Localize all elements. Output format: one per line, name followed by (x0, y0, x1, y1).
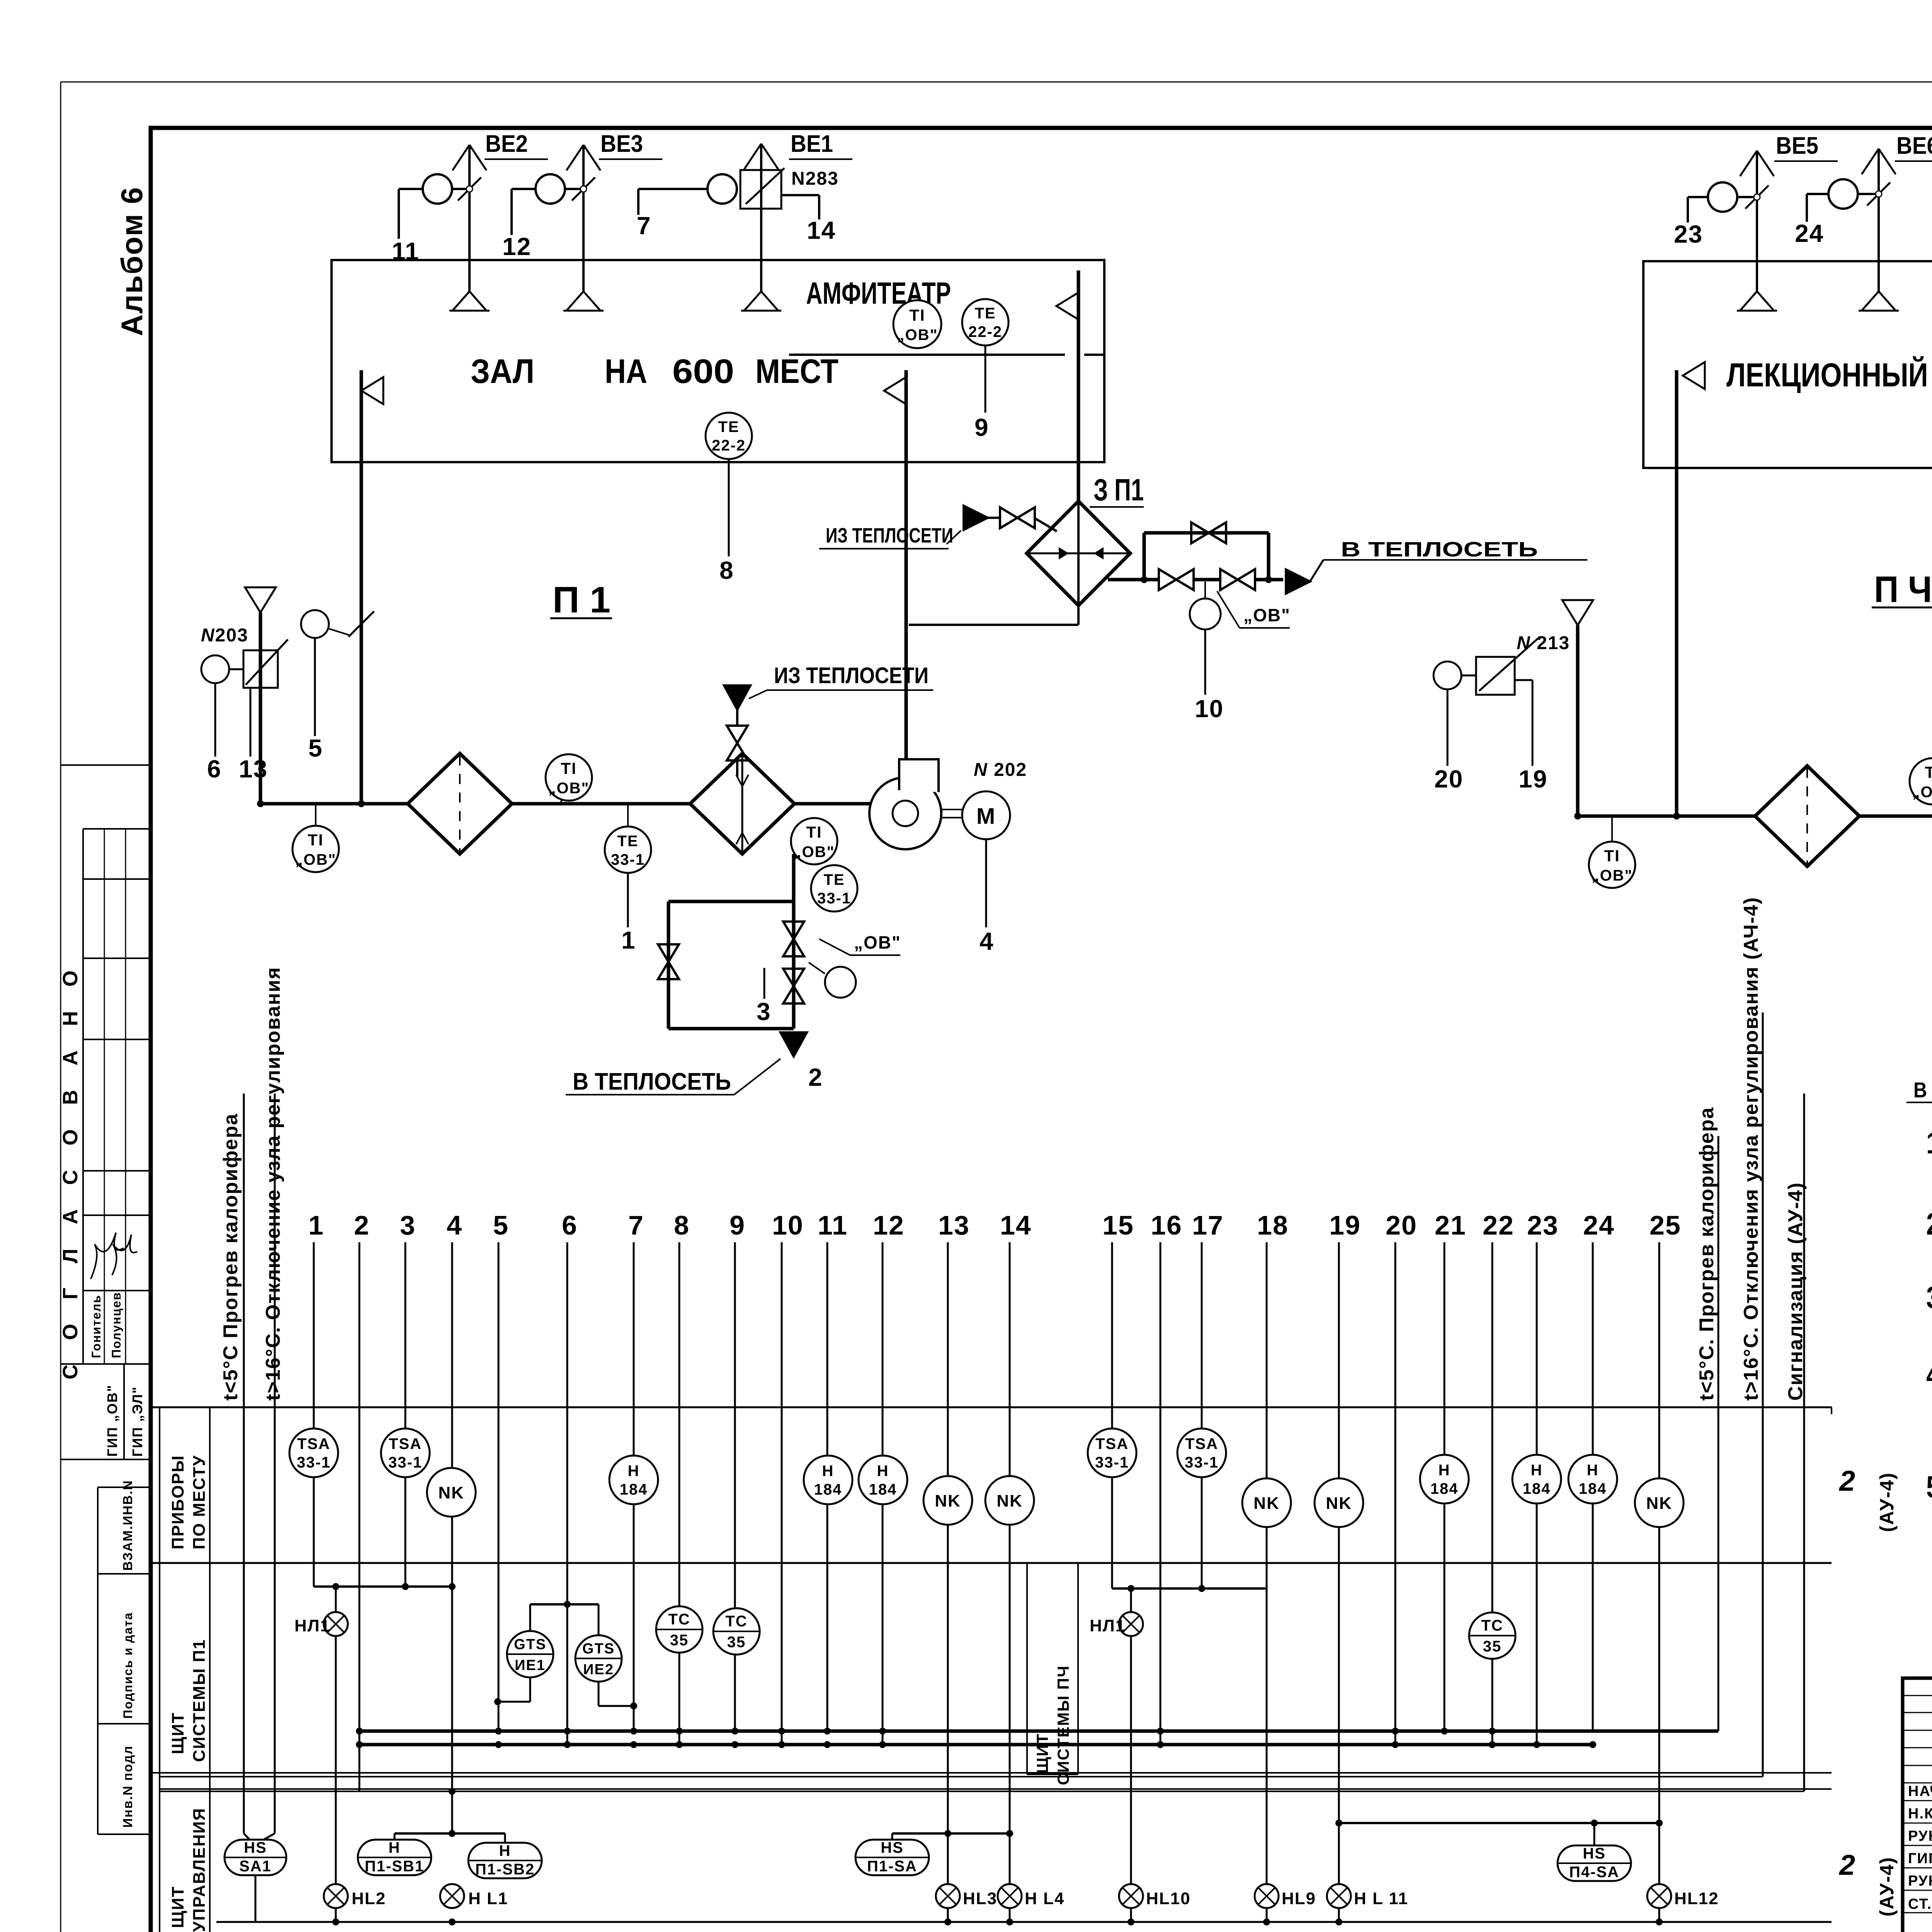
svg-text:H L 11: H L 11 (1354, 1889, 1408, 1908)
heat supply inlet P1 (724, 685, 750, 709)
svg-text:ТЕ: ТЕ (617, 833, 638, 850)
svg-text:УПРАВЛЕНИЯ: УПРАВЛЕНИЯ (190, 1808, 209, 1932)
wire 10 (772, 1210, 804, 1745)
svg-text:4: 4 (447, 1210, 463, 1240)
label t less 5C progrev kalorifera P1 (219, 1113, 242, 1401)
wire 14 (807, 216, 836, 244)
svg-text:2: 2 (1838, 1849, 1856, 1881)
svg-text:П 1: П 1 (553, 579, 611, 621)
wire 5 (493, 1210, 509, 1731)
svg-text:ТЕ: ТЕ (718, 418, 739, 435)
svg-text:13: 13 (239, 755, 268, 783)
svg-text:16: 16 (1151, 1210, 1182, 1240)
heater bypass loop P1 (658, 854, 804, 1029)
svg-text:ВЗАМ.ИНВ.N: ВЗАМ.ИНВ.N (121, 1480, 135, 1571)
svg-text:Н: Н (1587, 1462, 1599, 1479)
device H 184 line11 (804, 1456, 852, 1504)
svg-text:1: 1 (308, 1210, 324, 1240)
wire 25 (1650, 1210, 1681, 1922)
label pribory po mestu (168, 1455, 209, 1549)
svg-text:НА: НА (605, 352, 647, 390)
svg-text:22-2: 22-2 (968, 323, 1002, 340)
label v teploset P1 (566, 1059, 781, 1095)
svg-text:10: 10 (1195, 695, 1224, 723)
svg-text:ЩИТ: ЩИТ (1033, 1733, 1051, 1774)
svg-text:19: 19 (1329, 1210, 1361, 1240)
wire 3 (400, 1210, 416, 1587)
connector HS P4-SA (1335, 1820, 1663, 1846)
wire 18 (1257, 1210, 1289, 1922)
svg-text:TSA: TSA (1185, 1435, 1218, 1452)
svg-text:9: 9 (730, 1210, 745, 1240)
svg-text:2.: 2. (1926, 1207, 1932, 1241)
control bus upper (160, 1776, 1763, 1777)
title block signature names (1908, 1782, 1932, 1912)
switch TSA 33-1 line1 (289, 1429, 338, 1477)
wire 20 (1434, 689, 1463, 793)
band divider instruments top (151, 1406, 1832, 1408)
junction run line15-line18 (1112, 1585, 1267, 1592)
svg-text:HL2: HL2 (352, 1889, 386, 1908)
svg-text:Н: Н (1531, 1462, 1543, 1479)
wire 11 (392, 237, 420, 265)
title block frame (1903, 1678, 1932, 1932)
wire 17 (1192, 1210, 1224, 1588)
svg-text:ВЕ5: ВЕ5 (1776, 133, 1818, 159)
label OV valve P1 (819, 932, 901, 955)
svg-text:СИСТЕМЫ ПЧ: СИСТЕМЫ ПЧ (1054, 1665, 1072, 1785)
lamp HL1 panel P4 (1090, 1588, 1143, 1922)
control valve actuator P1 (809, 963, 856, 998)
svg-text:TI: TI (1925, 763, 1932, 781)
svg-text:„ОВ": „ОВ" (854, 932, 901, 952)
heat outlet arrow Z P1 (1286, 560, 1323, 594)
svg-text:2: 2 (808, 1063, 823, 1091)
return grille P4 left (1677, 362, 1705, 816)
svg-text:25: 25 (1650, 1210, 1681, 1240)
label v teploset Z P1 (1323, 538, 1587, 561)
svg-text:12: 12 (873, 1210, 905, 1240)
lamp HL1 panel P1 (294, 1587, 348, 1922)
svg-text:ПРИБОРЫ: ПРИБОРЫ (168, 1455, 187, 1549)
filter P4 (1755, 766, 1859, 866)
svg-text:Н: Н (628, 1463, 640, 1480)
wire 7 (628, 1210, 644, 1731)
svg-text:ВЕ6: ВЕ6 (1896, 133, 1932, 159)
wire 24 (1795, 219, 1824, 247)
wire signalizaciya (1803, 1094, 1805, 1791)
sensor TE 33-1 heater return P1 (811, 865, 857, 912)
svg-text:П1-SB1: П1-SB1 (365, 1858, 424, 1875)
room P1 hall 600 seats (332, 260, 1104, 462)
svg-text:24: 24 (1583, 1210, 1615, 1240)
label signalizaciya (1784, 1182, 1807, 1401)
room P4 lecture hall 200 seats (1643, 261, 1932, 468)
svg-text:Полунцев: Полунцев (109, 1292, 123, 1358)
svg-text:В ТЕПЛОСЕТЬ: В ТЕПЛОСЕТЬ (1341, 538, 1538, 561)
svg-text:ЩИТ: ЩИТ (168, 1712, 187, 1754)
wire 1 (621, 873, 636, 954)
wire 7 (637, 212, 651, 240)
svg-text:HL3: HL3 (963, 1889, 997, 1908)
damper N213 (1434, 633, 1570, 695)
sensor TE 33-1 P1 (605, 804, 651, 873)
svg-text:ВЕ2: ВЕ2 (485, 131, 528, 157)
svg-text:ВЕ3: ВЕ3 (600, 131, 643, 157)
wire 8 (674, 1210, 690, 1745)
filter P1 (408, 753, 512, 854)
svg-text:t>16°C. Отключение узла регули: t>16°C. Отключение узла регулирования (262, 967, 284, 1401)
GIP OV / GIP EL boxes (61, 1364, 151, 1459)
svg-text:12: 12 (502, 233, 531, 260)
svg-text:14: 14 (807, 216, 836, 244)
wire 12 (873, 1210, 905, 1745)
label iz teploseti P1 (749, 663, 933, 699)
svg-text:НАЧ.ОТД.: НАЧ.ОТД. (1908, 1783, 1932, 1799)
svg-text:П1-SA: П1-SA (867, 1858, 917, 1875)
wire t less 5C P4 (1718, 1136, 1719, 1731)
sensor TE 22-2 amphitheatre (962, 299, 1009, 413)
svg-text:33-1: 33-1 (817, 890, 851, 907)
svg-text:TI: TI (308, 831, 323, 849)
svg-text:(АУ-4): (АУ-4) (1876, 1472, 1898, 1532)
lamp HL4 (998, 1884, 1065, 1908)
bracket 2 AU-4 upper (1832, 1407, 1898, 1532)
control bus lower (160, 1791, 1804, 1792)
svg-text:14: 14 (1000, 1210, 1032, 1240)
button H P1-SB1 (358, 1839, 431, 1875)
automation signal wires 1-25 with numbers (308, 1210, 1681, 1922)
label Albom 6 (115, 187, 149, 336)
svg-text:Н: Н (499, 1842, 511, 1859)
svg-text:NK: NK (935, 1492, 961, 1510)
control valve actuator Z P1 (1190, 582, 1221, 629)
wire 3 (757, 968, 771, 1026)
device NK line4 (427, 1468, 476, 1517)
svg-text:184: 184 (1523, 1480, 1551, 1497)
wire 24 (1583, 1210, 1615, 1731)
svg-text:ЗАЛ: ЗАЛ (471, 352, 534, 390)
label LEKCIONNYJ ZAL NA 200 MEST (1726, 356, 1932, 394)
exhaust fan BE2 (399, 131, 548, 311)
svg-text:8: 8 (674, 1210, 690, 1240)
wire 4 (980, 839, 994, 955)
svg-text:Н: Н (389, 1839, 401, 1856)
svg-text:В ТЕПЛОСЕТЬ: В ТЕПЛОСЕТЬ (573, 1068, 731, 1095)
notes text (1926, 1126, 1932, 1541)
svg-text:3.: 3. (1926, 1280, 1932, 1315)
device NK line13 (923, 1476, 972, 1525)
svg-text:HL12: HL12 (1674, 1889, 1719, 1908)
svg-text:ИЗ ТЕПЛОСЕТИ: ИЗ ТЕПЛОСЕТИ (826, 524, 953, 547)
sensor TE 22-2 room P1 (706, 413, 752, 556)
switch HS P1-SA (855, 1839, 929, 1875)
label Soglasovano (59, 961, 82, 1379)
svg-text:РУК.СЕК.: РУК.СЕК. (1908, 1828, 1932, 1844)
svg-text:ИЗ ТЕПЛОСЕТИ: ИЗ ТЕПЛОСЕТИ (774, 663, 929, 688)
svg-text:SA1: SA1 (239, 1858, 272, 1875)
bottom lamp bus (216, 1918, 1832, 1925)
svg-text:„ОВ": „ОВ" (548, 780, 590, 797)
button H P1-SB2 (468, 1842, 542, 1878)
svg-text:NK: NK (997, 1492, 1023, 1510)
svg-text:Гонитель: Гонитель (89, 1294, 103, 1358)
svg-text:GTS: GTS (582, 1641, 615, 1657)
switch TSA 33-1 line15 (1088, 1429, 1136, 1477)
svg-text:23: 23 (1527, 1210, 1559, 1240)
svg-text:10: 10 (772, 1210, 804, 1240)
label OV Z P1 (1217, 591, 1291, 628)
svg-text:NK: NK (1646, 1494, 1672, 1513)
svg-text:4: 4 (980, 927, 994, 955)
lamp HL12 (1647, 1884, 1719, 1908)
wire 13 (239, 688, 268, 783)
svg-text:ЛЕКЦИОННЫЙ ЗАЛ НА: ЛЕКЦИОННЫЙ ЗАЛ НА (1726, 356, 1932, 394)
supply duct riser P1 fan to room (884, 370, 906, 760)
svg-text:t<5°C. Прогрев калорифера: t<5°C. Прогрев калорифера (1696, 1107, 1718, 1401)
wire 22 (1483, 1210, 1514, 1745)
wire 11 (818, 1210, 848, 1731)
damper N203 (201, 625, 288, 688)
svg-text:„ОВ": „ОВ" (1243, 605, 1291, 625)
svg-text:5.: 5. (1926, 1469, 1932, 1504)
svg-text:1.: 1. (1926, 1126, 1932, 1160)
svg-text:(АУ-4): (АУ-4) (1876, 1857, 1898, 1917)
label shchit sistemy P1 (168, 1639, 209, 1762)
exhaust fan BE1 with damper N283 (638, 131, 852, 311)
heat return outlet P1 (781, 1032, 807, 1056)
svg-text:t>16°C. Отключения узла регули: t>16°C. Отключения узла регулирования (А… (1740, 897, 1762, 1401)
exhaust duct P1 room to recuperator (1056, 270, 1078, 501)
svg-text:Альбом 6: Альбом 6 (115, 187, 149, 336)
svg-text:2: 2 (1838, 1465, 1856, 1497)
inv n podl box (98, 1745, 151, 1834)
label shchit upravleniya (168, 1808, 209, 1932)
fan P1 (869, 759, 941, 849)
svg-text:TSA: TSA (297, 1435, 330, 1452)
svg-text:Н: Н (822, 1463, 834, 1480)
lamp HL2 (324, 1884, 386, 1908)
wire 6 (207, 683, 222, 783)
svg-text:33-1: 33-1 (1095, 1454, 1129, 1471)
supply grille left P1 (361, 370, 383, 804)
svg-text:8: 8 (719, 556, 734, 584)
label column lines (160, 1407, 210, 1932)
svg-text:ТС: ТС (725, 1613, 747, 1630)
svg-text:ГИП: ГИП (1908, 1850, 1932, 1867)
svg-text:6: 6 (562, 1210, 578, 1240)
exhaust fan BE3 (512, 131, 662, 311)
wire 15 (1102, 1210, 1134, 1588)
device NK line19 (1315, 1478, 1363, 1527)
wire 9 (975, 413, 989, 441)
wire 21 (1435, 1210, 1466, 1731)
svg-text:18: 18 (1257, 1210, 1289, 1240)
device NK line25 (1635, 1478, 1684, 1527)
thermometer TI OV room P1 (893, 300, 941, 348)
svg-text:TI: TI (1604, 847, 1620, 865)
label t more 16C otklyucheniya uzla P4 (1740, 897, 1762, 1401)
wire 9 (730, 1210, 745, 1731)
lamp HL9 (1255, 1884, 1316, 1908)
junction run line1-line4 (314, 1583, 456, 1590)
exhaust fan BE6 (1807, 133, 1932, 311)
svg-text:HS: HS (1583, 1845, 1606, 1862)
svg-text:„ОВ": „ОВ" (897, 327, 938, 344)
recuperator Z P1 (1027, 501, 1130, 605)
device H 184 line7 (609, 1456, 658, 1504)
podpis i data box (98, 1612, 151, 1724)
svg-text:„ОВ": „ОВ" (1592, 867, 1633, 884)
svg-text:МЕСТ: МЕСТ (755, 352, 838, 390)
main duct P4 (1574, 813, 1932, 820)
svg-text:ЩИТ: ЩИТ (168, 1886, 187, 1928)
svg-text:ВЕ1: ВЕ1 (791, 131, 833, 157)
wire 19 (1329, 1210, 1361, 1922)
svg-text:NK: NK (1326, 1494, 1352, 1513)
svg-text:4.: 4. (1926, 1357, 1932, 1392)
bus panel P1 upper (356, 1728, 1718, 1735)
wire t more 16C P4 (1762, 1012, 1764, 1777)
svg-text:„ОВ": „ОВ" (794, 844, 835, 861)
wire 2 (808, 1063, 823, 1091)
svg-text:5: 5 (493, 1210, 509, 1240)
svg-text:15: 15 (1102, 1210, 1134, 1240)
svg-text:П4-SA: П4-SA (1569, 1864, 1619, 1881)
svg-text:Н: Н (877, 1463, 889, 1480)
thermometer TI OV after filter P1 (546, 754, 592, 804)
svg-text:3: 3 (400, 1210, 416, 1240)
wire 10 (1195, 629, 1224, 723)
wire 20 (1386, 1210, 1417, 1745)
svg-text:H L1: H L1 (468, 1889, 508, 1908)
lamp HL1 control (440, 1884, 508, 1908)
thermometer TI OV after heater P1 (791, 818, 837, 864)
device H 184 line23 (1512, 1455, 1561, 1503)
amphitheatre floor line (789, 354, 1104, 356)
svg-text:22: 22 (1483, 1210, 1514, 1240)
svg-text:2: 2 (354, 1210, 370, 1240)
svg-text:33-1: 33-1 (388, 1454, 422, 1471)
svg-text:20: 20 (1386, 1210, 1417, 1240)
bracket 2 AU-4 lower (1838, 1849, 1898, 1917)
svg-text:184: 184 (1579, 1480, 1607, 1497)
thermometer TI OV after filter P4 (1910, 758, 1932, 815)
svg-text:TI: TI (909, 306, 925, 324)
svg-text:NK: NK (438, 1483, 464, 1502)
svg-text:HL9: HL9 (1282, 1889, 1316, 1908)
svg-text:GTS: GTS (514, 1636, 546, 1653)
svg-text:ГИП „ОВ": ГИП „ОВ" (104, 1384, 120, 1457)
relay TC 35 line9 (713, 1608, 760, 1655)
svg-text:t<5°C Прогрев калорифера: t<5°C Прогрев калорифера (219, 1113, 242, 1401)
converter GTS IE2 (530, 1601, 637, 1709)
svg-text:20: 20 (1434, 765, 1463, 793)
label ZAL NA 600 MEST (471, 352, 838, 390)
label t less 5C progrev kalorifera P4 (1696, 1107, 1718, 1401)
svg-text:В ТЕПЛОСЕТЬ: В ТЕПЛОСЕТЬ (1913, 1078, 1932, 1102)
thermometer TI OV duct P4 left (1589, 817, 1635, 888)
wire 16 (1151, 1210, 1182, 1745)
wire 19 (1515, 680, 1548, 793)
switch TSA 33-1 line17 (1177, 1429, 1226, 1477)
svg-text:N 202: N 202 (974, 760, 1027, 780)
svg-text:ГИП „ЭЛ": ГИП „ЭЛ" (129, 1386, 145, 1457)
svg-text:184: 184 (814, 1481, 842, 1498)
svg-text:СТ. ИНЖ.: СТ. ИНЖ. (1908, 1896, 1932, 1912)
device H 184 line12 (859, 1456, 907, 1504)
svg-text:HS: HS (881, 1839, 904, 1856)
svg-text:„ОВ": „ОВ" (295, 851, 337, 868)
vzam inv box (98, 1480, 151, 1834)
damper 5 on return duct (301, 610, 374, 638)
wire 14 (1000, 1210, 1032, 1922)
lamp HL3 (936, 1884, 997, 1908)
svg-text:184: 184 (1430, 1480, 1459, 1497)
svg-text:П1-SB2: П1-SB2 (475, 1861, 535, 1878)
svg-text:TI: TI (806, 823, 822, 841)
wire 8 (719, 556, 734, 584)
svg-text:Н.КОНТР.: Н.КОНТР. (1908, 1806, 1932, 1822)
svg-text:22-2: 22-2 (712, 437, 746, 454)
wire 5 (308, 638, 323, 762)
bypass Z P1 (1144, 522, 1269, 580)
converter GTS IE1 (494, 1604, 553, 1705)
svg-text:11: 11 (392, 237, 420, 265)
wire 4 (447, 1210, 463, 1833)
soglasovano table (61, 765, 151, 1364)
svg-text:СИСТЕМЫ П1: СИСТЕМЫ П1 (190, 1639, 209, 1762)
svg-text:19: 19 (1519, 765, 1548, 793)
connector ovals P1-SB (395, 1788, 505, 1843)
svg-text:TSA: TSA (1095, 1435, 1129, 1452)
svg-text:„ОВ": „ОВ" (1912, 784, 1932, 801)
lamp HL11 (1327, 1884, 1408, 1908)
signature names left margin (89, 1233, 137, 1358)
svg-text:TSA: TSA (389, 1435, 422, 1452)
svg-text:33-1: 33-1 (1185, 1454, 1219, 1471)
heat outlet line Z P1 (1108, 576, 1283, 583)
svg-text:З П1: З П1 (1094, 473, 1144, 507)
svg-text:TI: TI (561, 759, 577, 777)
svg-text:N203: N203 (201, 625, 248, 646)
svg-text:1: 1 (621, 926, 636, 954)
wire 23 (1674, 220, 1703, 248)
svg-text:НЛ1: НЛ1 (294, 1616, 330, 1635)
svg-text:HL10: HL10 (1146, 1889, 1191, 1908)
heat supply valve P1 (727, 709, 748, 777)
switch HS SA1 (224, 1094, 286, 1922)
svg-text:7: 7 (637, 212, 651, 240)
valve Z P1 inlet (1000, 507, 1057, 531)
svg-text:ПО МЕСТУ: ПО МЕСТУ (190, 1455, 209, 1549)
relay TC 35 line8 (656, 1606, 702, 1653)
svg-text:9: 9 (975, 413, 989, 441)
band divider control panel (151, 1773, 1832, 1789)
label v teploset P4 (1906, 1078, 1932, 1102)
svg-text:5: 5 (308, 734, 323, 762)
svg-text:600: 600 (672, 352, 734, 390)
device NK line18 (1242, 1478, 1291, 1527)
connector HS P1-SA (892, 1830, 1013, 1840)
svg-text:11: 11 (818, 1210, 848, 1240)
svg-text:NK: NK (1253, 1494, 1280, 1513)
svg-text:ИЕ1: ИЕ1 (515, 1657, 546, 1673)
svg-text:23: 23 (1674, 220, 1703, 248)
svg-text:3: 3 (757, 998, 771, 1026)
air intake P1 (245, 587, 276, 804)
label AMFITEATR (806, 276, 951, 310)
